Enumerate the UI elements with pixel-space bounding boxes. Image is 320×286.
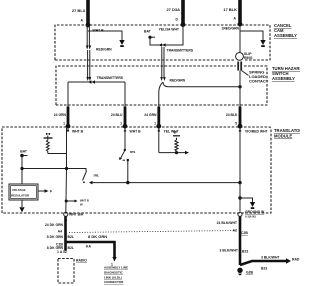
svg-text:rm.: rm. — [94, 173, 100, 178]
svg-text:27 D3A: 27 D3A — [166, 7, 180, 12]
svg-text:RAD: RAD — [292, 258, 300, 262]
svg-text:3 BLK/WHT: 3 BLK/WHT — [261, 256, 280, 260]
svg-text:24 BLK/WHT: 24 BLK/WHT — [217, 221, 238, 225]
svg-text:VOLTAGE: VOLTAGE — [12, 188, 26, 192]
svg-text:CONTACT: CONTACT — [249, 79, 269, 84]
svg-text:YEL WHT: YEL WHT — [164, 130, 180, 134]
svg-text:CONNECTOR: CONNECTOR — [104, 280, 124, 284]
svg-text:1: 1 — [63, 122, 65, 126]
svg-text:MODULE: MODULE — [274, 134, 292, 139]
svg-text:RING: RING — [244, 56, 253, 60]
svg-text:ASSEMBLY: ASSEMBLY — [272, 76, 295, 81]
svg-text:3 BLK/WHT: 3 BLK/WHT — [220, 249, 239, 253]
svg-text:B23: B23 — [242, 250, 248, 254]
svg-text:KA: KA — [86, 245, 91, 249]
svg-text:24 BLU: 24 BLU — [111, 113, 123, 117]
svg-text:RED/GRN: RED/GRN — [96, 48, 112, 52]
svg-text:24 DK GRN: 24 DK GRN — [45, 223, 64, 227]
svg-text:GROUND W: GROUND W — [245, 210, 265, 214]
svg-text:1: 1 — [154, 122, 156, 126]
svg-text:DIAGNOSTIC: DIAGNOSTIC — [104, 271, 124, 275]
svg-text:A2: A2 — [233, 229, 237, 233]
svg-text:8 DK GRN: 8 DK GRN — [88, 234, 107, 239]
svg-text:WHT B: WHT B — [93, 29, 105, 33]
svg-text:LINK (ALDL): LINK (ALDL) — [104, 275, 122, 279]
svg-text:ASSEMBLY LINE: ASSEMBLY LINE — [104, 266, 128, 270]
svg-text:8 DK GRN: 8 DK GRN — [47, 235, 64, 239]
svg-text:1: 1 — [120, 122, 122, 126]
svg-text:24 GRN: 24 GRN — [54, 113, 67, 117]
svg-text:B23: B23 — [261, 267, 267, 271]
svg-text:B2L: B2L — [68, 246, 74, 250]
svg-text:A4: A4 — [58, 230, 62, 234]
svg-text:RADIO: RADIO — [76, 259, 87, 263]
svg-text:TRANSMITTERS: TRANSMITTERS — [97, 76, 124, 80]
svg-text:17 BLK: 17 BLK — [223, 7, 237, 12]
svg-text:F: F — [50, 190, 52, 194]
svg-text:27 BL3: 27 BL3 — [72, 8, 86, 13]
svg-text:YEL/3A WHT: YEL/3A WHT — [159, 28, 180, 32]
svg-text:24 BLK: 24 BLK — [226, 113, 238, 117]
svg-text:rm.: rm. — [130, 149, 136, 154]
svg-text:5: 5 — [235, 122, 237, 126]
svg-text:TRANSMITTERS: TRANSMITTERS — [167, 49, 194, 53]
svg-text:REGULATOR: REGULATOR — [11, 194, 30, 198]
svg-text:1 A 52: 1 A 52 — [57, 250, 67, 254]
svg-text:C2B: C2B — [241, 231, 248, 235]
svg-text:RED/GRN: RED/GRN — [170, 79, 186, 83]
svg-text:WHT B: WHT B — [80, 199, 89, 203]
svg-text:WHT B: WHT B — [130, 130, 142, 134]
svg-text:VIO/RED WHT: VIO/RED WHT — [245, 130, 269, 134]
svg-text:TRANSLATOR: TRANSLATOR — [274, 128, 300, 133]
svg-text:B2L: B2L — [68, 235, 74, 239]
svg-text:24 GRN: 24 GRN — [144, 113, 157, 117]
svg-text:ASSEMBLY: ASSEMBLY — [274, 33, 297, 38]
svg-text:BAT: BAT — [20, 150, 28, 154]
svg-text:G2B: G2B — [246, 271, 254, 275]
svg-text:WHT B: WHT B — [72, 130, 84, 134]
svg-text:BAT: BAT — [144, 30, 152, 34]
svg-text:A 3(A W): A 3(A W) — [245, 215, 256, 219]
svg-text:1RED/GRN: 1RED/GRN — [221, 27, 239, 31]
svg-text:WHT B/R: WHT B/R — [69, 213, 84, 217]
